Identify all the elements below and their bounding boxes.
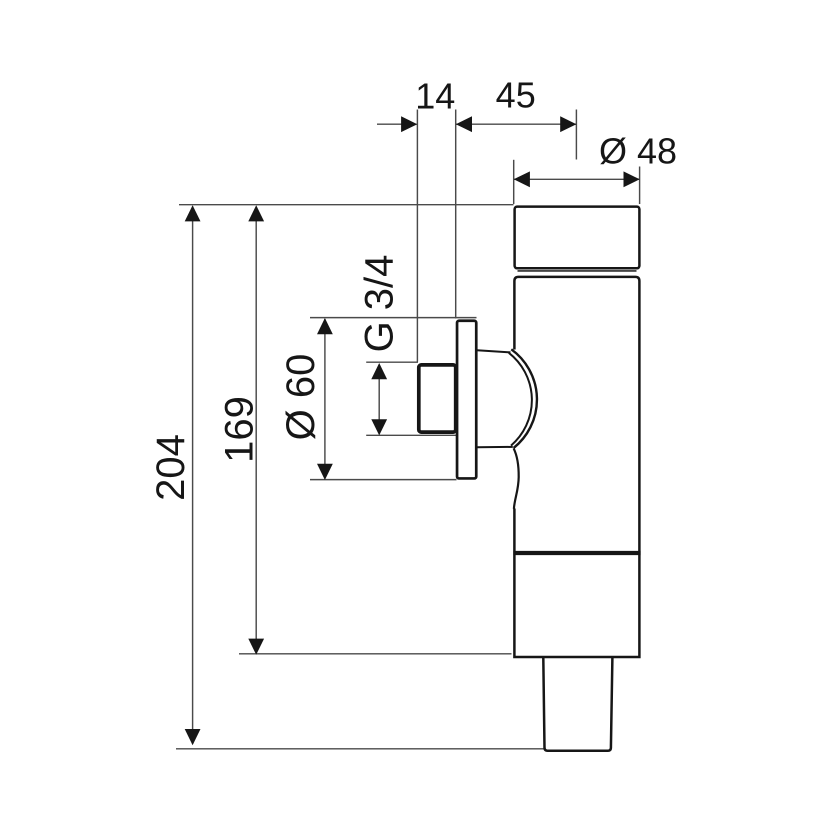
svg-text:45: 45: [496, 75, 536, 116]
svg-text:204: 204: [149, 434, 193, 501]
svg-text:14: 14: [415, 76, 455, 117]
svg-text:169: 169: [218, 396, 262, 463]
svg-text:G 3/4: G 3/4: [357, 255, 401, 353]
svg-text:Ø 48: Ø 48: [599, 130, 677, 171]
svg-text:Ø 60: Ø 60: [279, 354, 323, 441]
